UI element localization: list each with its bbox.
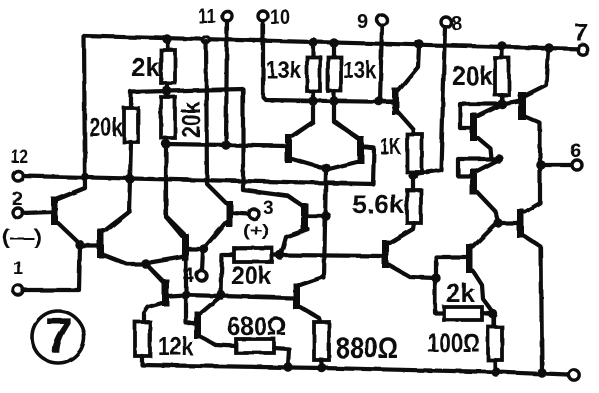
node 20k-h riser junction bbox=[216, 290, 225, 299]
transistor Q15 bbox=[518, 92, 526, 120]
wire left rail drop to Q1 collector bbox=[57, 36, 85, 199]
wire pin8 stem to 1K bottom bbox=[414, 27, 445, 174]
transistor Q4 bbox=[182, 234, 189, 261]
node Q16 emitter junction bbox=[537, 368, 546, 377]
node 2k bottom open junction bbox=[164, 88, 170, 94]
pin 10 bbox=[258, 11, 268, 21]
transistor Q14 bbox=[470, 113, 477, 141]
wire to Q16 collector bbox=[525, 166, 540, 212]
node rail small open junction bbox=[203, 37, 210, 44]
wire 2k bottom cross line to Q10 collector bbox=[131, 89, 303, 206]
svg-text:880Ω: 880Ω bbox=[336, 332, 398, 365]
svg-text:12k: 12k bbox=[158, 331, 193, 361]
resistor R12 20k right bbox=[500, 48, 504, 58]
svg-text:6: 6 bbox=[570, 140, 581, 162]
svg-text:4: 4 bbox=[183, 265, 195, 287]
wire QX base drop bbox=[186, 295, 194, 323]
transistor Q10 bbox=[301, 203, 308, 231]
resistor R3 20k vertical label bbox=[165, 94, 169, 97]
resistor R5 13k bbox=[332, 45, 336, 57]
node 880 junction bbox=[317, 363, 326, 372]
node 1K bottom bbox=[408, 170, 417, 179]
node R13 right junction bbox=[488, 309, 497, 318]
transistor Q3 bbox=[97, 228, 104, 258]
pin 8 bbox=[441, 17, 451, 27]
svg-text:20k: 20k bbox=[231, 262, 271, 290]
transistor Q8 bbox=[285, 134, 292, 163]
node Q5 base junction bbox=[181, 290, 190, 299]
node 100 junction bbox=[491, 367, 500, 376]
resistor R6 1K bbox=[407, 134, 422, 172]
node rail-13k junctions bbox=[308, 37, 317, 46]
wire pin11 stem bbox=[226, 21, 227, 145]
node 13k bottoms bbox=[308, 96, 317, 105]
node 20k bottom junction bbox=[497, 99, 506, 108]
node Q1 emitter bbox=[75, 240, 84, 249]
wire down to 2k left bbox=[435, 278, 444, 313]
figure number 7 circled bbox=[32, 311, 84, 363]
resistor R4 13k bbox=[311, 44, 315, 57]
wire pin4 stem bbox=[202, 250, 203, 271]
transistor Q13 bbox=[470, 169, 477, 195]
svg-text:7: 7 bbox=[45, 308, 73, 364]
transistor Q16 bbox=[517, 209, 524, 238]
node Q13 collector junction bbox=[494, 154, 503, 163]
node Q8 Q9 emitters bbox=[321, 163, 331, 173]
resistor R11 880 bbox=[314, 322, 329, 360]
svg-text:13k: 13k bbox=[343, 57, 377, 84]
node rail-Q15 junction bbox=[544, 43, 553, 52]
resistor R9 12k bbox=[135, 322, 150, 356]
node rail-2k junction bbox=[162, 34, 171, 43]
wire Q2 emitter bbox=[204, 222, 226, 248]
node Q3 emitter junction bbox=[141, 259, 151, 269]
svg-text:12: 12 bbox=[11, 147, 28, 168]
wire to Q4 emitter bbox=[147, 257, 182, 263]
wire V- bottom rail bbox=[142, 365, 568, 375]
transistor Q5 bbox=[162, 279, 169, 306]
svg-text:(+): (+) bbox=[243, 221, 269, 240]
svg-text:1: 1 bbox=[13, 258, 23, 278]
svg-text:10: 10 bbox=[270, 6, 290, 29]
wire base line to Q7 bbox=[186, 295, 293, 298]
node Q10 base junction bbox=[321, 211, 330, 220]
transistor Q11 bbox=[382, 240, 389, 268]
svg-text:11: 11 bbox=[198, 6, 216, 28]
wire Q3 base bbox=[80, 244, 97, 248]
node 680 junction bbox=[283, 362, 292, 371]
wire to pin 6 bbox=[545, 163, 572, 167]
svg-text:2k: 2k bbox=[446, 278, 475, 308]
pin 3 bbox=[249, 209, 259, 219]
svg-text:13k: 13k bbox=[266, 57, 302, 84]
node Q2 emitter junction bbox=[199, 244, 208, 253]
wire 20k-h riser bbox=[221, 255, 234, 295]
wire V+ top rail bbox=[84, 36, 583, 49]
pin 6 bbox=[572, 160, 582, 170]
wire to Q5 collector bbox=[147, 265, 163, 282]
node R8 right junction bbox=[275, 250, 284, 259]
wire emitter-node vertical bbox=[324, 169, 326, 278]
node pin11 to base line bbox=[221, 140, 230, 149]
resistor R13 2k right bbox=[444, 307, 482, 320]
svg-text:20k: 20k bbox=[452, 61, 494, 91]
svg-text:100Ω: 100Ω bbox=[427, 328, 480, 358]
svg-text:680Ω: 680Ω bbox=[227, 311, 286, 341]
wire Q17 base loop bbox=[436, 257, 466, 278]
svg-text:2k: 2k bbox=[131, 52, 160, 82]
svg-text:9: 9 bbox=[357, 11, 368, 33]
node Q16 base junction bbox=[493, 218, 502, 227]
resistor R7 5.6k bbox=[411, 175, 415, 190]
svg-text:20k: 20k bbox=[89, 112, 123, 142]
resistor R14 100 bbox=[492, 313, 496, 327]
wire Q8 base line bbox=[166, 144, 286, 146]
node rail-Q12 collector junction bbox=[414, 39, 423, 48]
svg-text:8: 8 bbox=[451, 13, 462, 35]
svg-text:5.6k: 5.6k bbox=[352, 189, 405, 219]
resistor R2 20k left bbox=[129, 92, 133, 108]
node QD emitter junction bbox=[431, 273, 440, 282]
transistor Q17 bbox=[466, 244, 473, 273]
svg-text:1K: 1K bbox=[380, 133, 401, 159]
transistor Q9 bbox=[357, 136, 364, 164]
pin 7 bbox=[578, 45, 588, 55]
transistor Q7 bbox=[293, 283, 300, 309]
wire pin12 long line to Q9 base bbox=[23, 147, 374, 184]
wire Q11 base line bbox=[280, 255, 382, 256]
transistor Q1 bbox=[51, 197, 58, 225]
svg-text:20k: 20k bbox=[176, 102, 206, 138]
transistor Q2 bbox=[226, 201, 233, 227]
node rail-20k junction bbox=[497, 41, 506, 50]
wire pin9 stem bbox=[380, 25, 382, 101]
node pin6 junction bbox=[536, 160, 546, 170]
wire Q14 emitter bbox=[478, 138, 499, 159]
svg-text:3: 3 bbox=[263, 198, 274, 219]
transistor Q12 bbox=[392, 88, 399, 115]
svg-text:7: 7 bbox=[574, 19, 588, 47]
transistor Q6 bbox=[194, 311, 201, 339]
node 20k bottom junction bbox=[161, 139, 170, 148]
wire pin10 stem to 13k bottom line bbox=[263, 21, 394, 102]
svg-text:(—): (—) bbox=[2, 227, 42, 249]
wire pin1 up to Q1 emitter node bbox=[23, 246, 80, 290]
resistor R1 2k bbox=[166, 41, 170, 50]
resistor R10 680 bbox=[236, 339, 274, 353]
terminal V- bbox=[569, 370, 579, 380]
resistor R8 20k horizontal bbox=[234, 248, 272, 262]
